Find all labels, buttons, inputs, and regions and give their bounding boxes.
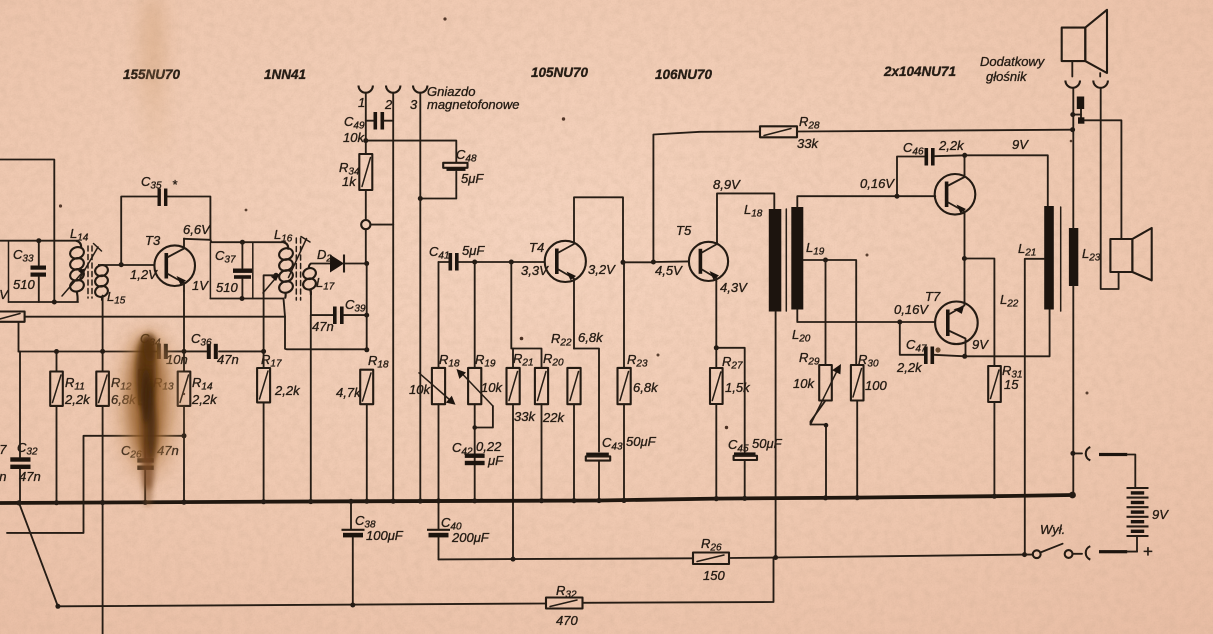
- svg-text:200μF: 200μF: [451, 530, 490, 545]
- svg-text:10k: 10k: [481, 380, 503, 395]
- capacitor C49: [343, 112, 393, 145]
- wire feedback rail: [439, 558, 694, 559]
- potentiometer R29: [793, 350, 841, 499]
- node T6 base / C46: [895, 194, 900, 199]
- wire pin2 down: [392, 94, 394, 502]
- svg-text:1NN41: 1NN41: [264, 67, 306, 82]
- potentiometer R19: [457, 262, 504, 501]
- resistor R18 (4,7k): [336, 353, 389, 501]
- transistor T3: [130, 222, 211, 291]
- svg-text:150: 150: [703, 568, 725, 583]
- node R28 line end: [1070, 127, 1075, 132]
- wire T3 collector to C37/L16: [184, 239, 284, 242]
- svg-text:T4: T4: [529, 240, 544, 255]
- node T5 emitter / R27: [714, 282, 719, 369]
- svg-text:T5: T5: [676, 223, 692, 238]
- stain main blotch: [118, 330, 178, 507]
- capacitor C36: [191, 331, 239, 367]
- node T5 base line: [651, 260, 656, 265]
- resistor R28: [760, 114, 1073, 151]
- wire R34 to connector node: [365, 190, 367, 220]
- resistor R22: [551, 330, 604, 501]
- wire T7 collector node: [962, 341, 967, 359]
- capacitor C42: [452, 439, 504, 468]
- transistor T4: [521, 240, 616, 282]
- node L18 rail junction: [773, 555, 778, 560]
- svg-text:1k: 1k: [342, 174, 357, 189]
- resistor R13: [139, 349, 174, 458]
- node tap to R29: [823, 258, 828, 366]
- wire R17 tap to L16: [261, 275, 276, 368]
- label Gniazdo magnetofonowe: [427, 84, 520, 112]
- wire pin3 down: [419, 94, 421, 502]
- wire C37 box bottom: [210, 296, 283, 301]
- svg-text:4,3V: 4,3V: [720, 280, 748, 295]
- inductor L14: [69, 226, 89, 302]
- wire L19 tap: [803, 260, 856, 365]
- transistor T6: [935, 174, 976, 215]
- wire C33 box bottom: [9, 301, 79, 303]
- svg-text:470: 470: [556, 613, 578, 628]
- svg-text:100: 100: [865, 378, 887, 393]
- node battery branch: [1070, 451, 1075, 456]
- resistor R32: [58, 558, 774, 628]
- inductor L16: [274, 227, 294, 299]
- transformer core L14/L15: [88, 246, 92, 298]
- svg-text:33k: 33k: [797, 136, 819, 151]
- voltage label 1V: [192, 278, 209, 293]
- wire L17 line to bus: [310, 315, 312, 501]
- wire 9V rail to L21: [965, 137, 1048, 206]
- node R21 rail: [511, 557, 516, 562]
- speaker (additional): [1062, 10, 1107, 77]
- svg-text:3: 3: [410, 97, 418, 112]
- node C39 right: [364, 313, 369, 318]
- svg-text:2,2k: 2,2k: [896, 360, 923, 375]
- resistor R26: [693, 536, 776, 583]
- switch Wyl: [1033, 522, 1073, 558]
- wire L23 bottom to bus: [1072, 286, 1074, 495]
- svg-text:9V: 9V: [972, 337, 989, 352]
- capacitor C27 label fragment: [0, 442, 7, 484]
- svg-text:47n: 47n: [312, 319, 334, 334]
- svg-text:0,16V: 0,16V: [860, 176, 895, 191]
- svg-text:T3: T3: [145, 233, 161, 248]
- wire diagonal to bottom rail: [19, 503, 58, 606]
- svg-text:510: 510: [216, 280, 238, 295]
- wire emitter node to R31: [964, 259, 994, 367]
- inductor L15: [94, 263, 126, 306]
- resistor R17: [257, 352, 301, 501]
- svg-text:0,16V: 0,16V: [894, 302, 929, 317]
- wire C45 column: [716, 348, 744, 452]
- wire base row to T5: [623, 261, 653, 263]
- diode D2: [311, 247, 367, 273]
- svg-text:106NU70: 106NU70: [655, 67, 713, 82]
- node at R18 line y349: [364, 347, 369, 352]
- transformer winding L19/L20: [791, 207, 824, 345]
- wire T3 emitter down: [183, 291, 185, 372]
- resistor R20: [513, 349, 565, 502]
- speaker jack hook 2: [1093, 81, 1118, 290]
- wire L15 to T3 base: [100, 264, 155, 266]
- node T7 base / C47: [897, 320, 902, 325]
- node C41/R19: [472, 260, 477, 265]
- svg-text:1: 1: [358, 95, 365, 110]
- resistor R30: [851, 352, 888, 498]
- wire T6 emitter to T7 emitter: [964, 214, 966, 302]
- svg-text:105NU70: 105NU70: [531, 65, 589, 80]
- svg-text:10k: 10k: [793, 376, 815, 391]
- svg-text:2x104NU71: 2x104NU71: [883, 64, 956, 79]
- node emitter row: [182, 349, 187, 354]
- capacitor C38 (electrolytic): [342, 501, 404, 606]
- svg-text:2,2k: 2,2k: [64, 392, 91, 407]
- wire L16 bottom to R18 line: [284, 299, 367, 350]
- wire T5 collector to L18: [713, 177, 774, 242]
- svg-text:6,8k: 6,8k: [633, 380, 659, 395]
- node centre tap to switch rail: [1022, 552, 1027, 557]
- wire L15 bottom to row: [102, 296, 104, 352]
- svg-text:22k: 22k: [542, 410, 565, 425]
- capacitor C26: [121, 443, 179, 502]
- svg-text:4,7k: 4,7k: [336, 385, 362, 400]
- svg-text:510: 510: [13, 277, 35, 292]
- wire L19 top to T6 base: [797, 196, 935, 207]
- node speaker jack upper: [1070, 112, 1075, 117]
- capacitor C45 (electrolytic): [728, 436, 783, 498]
- L16 tap node and arrow: [263, 273, 279, 293]
- potentiometer R18 (10k trim): [409, 352, 460, 501]
- svg-text:100μF: 100μF: [366, 528, 404, 543]
- wire L21 centre tap: [1025, 259, 1044, 555]
- svg-text:2,2k: 2,2k: [274, 383, 301, 398]
- L14 tuning arrow: [62, 244, 102, 297]
- battery connector upper: [1073, 447, 1136, 488]
- L16 tuning arrow: [289, 237, 311, 278]
- inductor L17: [302, 264, 335, 296]
- capacitor C33 (variable, boxed): [9, 241, 47, 302]
- svg-text:6,8k: 6,8k: [578, 330, 604, 345]
- wire L20 bottom to T7 base: [797, 310, 935, 323]
- node T4 loop to R23 line: [621, 260, 626, 265]
- svg-text:2: 2: [384, 97, 393, 112]
- resistor R14: [178, 372, 218, 503]
- svg-text:9V: 9V: [1152, 507, 1169, 522]
- paper specks: [59, 17, 1089, 429]
- transistor T5: [653, 223, 748, 295]
- voltage label 0,16V: [860, 176, 895, 191]
- wire T4 collector loop: [574, 197, 623, 262]
- capacitor C35: [121, 174, 210, 265]
- svg-text:50μF: 50μF: [626, 434, 657, 449]
- node C35 left tap: [119, 262, 124, 267]
- wire pin1 down: [365, 94, 367, 155]
- capacitor C43 (electrolytic): [586, 434, 657, 501]
- node emitter junction: [962, 256, 967, 261]
- svg-text:9V: 9V: [1012, 137, 1029, 152]
- svg-text:2,2k: 2,2k: [938, 138, 965, 153]
- svg-text:5μF: 5μF: [462, 243, 485, 258]
- resistor R21: [507, 262, 537, 559]
- svg-text:magnetofonowe: magnetofonowe: [427, 97, 520, 112]
- svg-text:μF: μF: [487, 453, 504, 468]
- ground bus: [0, 495, 1073, 503]
- svg-text:27: 27: [0, 442, 7, 457]
- voltage label fragment left edge: [0, 287, 9, 302]
- capacitor C37 (variable, boxed): [210, 240, 252, 299]
- resistor R12: [96, 349, 137, 634]
- svg-text:10k: 10k: [409, 382, 431, 397]
- svg-text:2,2k: 2,2k: [191, 392, 218, 407]
- wire T6 collector to 9V rail: [962, 153, 967, 175]
- svg-text:3,2V: 3,2V: [588, 262, 616, 277]
- svg-text:50μF: 50μF: [752, 436, 783, 451]
- wire AVC long line: [25, 316, 285, 318]
- transformer winding L23: [1069, 228, 1101, 286]
- capacitor C40 (electrolytic): [427, 501, 490, 560]
- wire R14 branch left: [7, 433, 187, 533]
- svg-text:+: +: [1143, 542, 1153, 561]
- transformer winding L21/L22: [1000, 206, 1054, 310]
- transistor T7: [894, 289, 989, 352]
- wire rail to switch: [776, 555, 1033, 558]
- speaker (main, right): [1110, 228, 1151, 280]
- wire left resistor bottom tap: [18, 322, 20, 352]
- svg-text:0,22: 0,22: [476, 439, 502, 454]
- jack socket pin 3: [410, 86, 427, 113]
- capacitor C48 (electrolytic): [420, 147, 484, 199]
- node C38 bottom rail: [55, 603, 355, 609]
- wire collector node to L21 bottom: [965, 310, 1050, 357]
- speaker jack hook 1: [1065, 81, 1080, 88]
- wire C34/C36 row: [19, 350, 264, 352]
- jack socket pin 1: [358, 86, 373, 111]
- svg-text:1V: 1V: [192, 278, 209, 293]
- svg-text:Wył.: Wył.: [1040, 522, 1065, 537]
- node D2 output: [364, 261, 369, 266]
- svg-text:5μF: 5μF: [461, 171, 484, 186]
- wire connector node down to D2 junction: [365, 229, 368, 350]
- connector node (open circle): [361, 220, 393, 229]
- battery 9V: [1127, 488, 1170, 561]
- resistor R34: [339, 154, 372, 190]
- svg-text:8,9V: 8,9V: [713, 177, 741, 192]
- svg-text:1V: 1V: [0, 287, 9, 302]
- node bus end: [1069, 492, 1076, 499]
- wire C41 left down through R18 trim: [438, 262, 440, 368]
- node on L14 top wire: [36, 238, 41, 243]
- svg-text:10k: 10k: [343, 130, 365, 145]
- node C41/R21: [509, 260, 514, 265]
- wire T4 emitter down: [573, 282, 575, 349]
- resistor R27: [710, 354, 751, 499]
- svg-text:1,2V: 1,2V: [130, 267, 158, 282]
- node C48 to pin3 line: [418, 196, 423, 201]
- svg-text:15: 15: [1004, 377, 1019, 392]
- svg-text:1,5k: 1,5k: [725, 380, 751, 395]
- wire emitter tee to C43: [574, 349, 599, 452]
- capacitor C46: [897, 138, 965, 196]
- svg-text:Dodatkowy: Dodatkowy: [980, 54, 1046, 69]
- resistor R31: [988, 363, 1022, 496]
- wire L18 bottom down: [775, 312, 777, 558]
- wire L23 top feed: [1072, 88, 1074, 228]
- node C33 bottom: [52, 300, 57, 305]
- wire to C48: [366, 141, 457, 163]
- transformer core L18/L19: [785, 209, 787, 311]
- battery connector lower: [1073, 546, 1138, 559]
- transformer core L16/L17: [296, 238, 300, 300]
- svg-text:6,6V: 6,6V: [183, 222, 211, 237]
- svg-text:3,3V: 3,3V: [521, 263, 549, 278]
- voltage label 4,5V: [655, 263, 683, 278]
- wire L17 bottom: [310, 289, 312, 315]
- jack socket pin 2: [384, 86, 400, 113]
- transformer core L21/L23: [1060, 207, 1062, 311]
- plug contact: [1073, 97, 1122, 240]
- capacitor C34: [140, 331, 188, 367]
- resistor (left edge, horizontal): [0, 312, 25, 322]
- node pin1/C48 junction: [363, 138, 368, 143]
- svg-text:4,5V: 4,5V: [655, 263, 683, 278]
- svg-text:7n: 7n: [0, 469, 6, 484]
- capacitor C39: [311, 297, 367, 334]
- transformer winding L18: [744, 202, 781, 312]
- section titles: [123, 67, 181, 82]
- bus junction nodes left: [54, 494, 997, 506]
- resistor R11: [50, 349, 91, 503]
- capacitor C32: [10, 352, 40, 503]
- capacitor C47: [896, 322, 965, 375]
- wire top-left feed: [0, 160, 54, 303]
- wire R28 feedback: [653, 132, 760, 263]
- wire L14 top: [0, 240, 76, 242]
- node C32 bus: [16, 500, 21, 505]
- svg-text:33k: 33k: [514, 409, 536, 424]
- svg-text:głośnik: głośnik: [986, 69, 1028, 84]
- stain top streak: [142, 0, 164, 155]
- resistor R23: [618, 262, 660, 500]
- svg-text:47n: 47n: [217, 352, 239, 367]
- svg-text:47n: 47n: [19, 469, 41, 484]
- capacitor C41: [429, 243, 545, 271]
